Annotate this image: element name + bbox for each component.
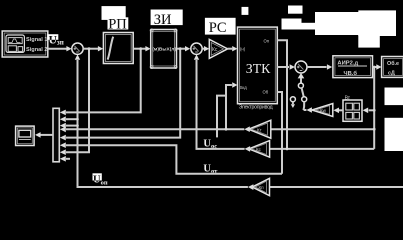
wire gain Ta to switch bbox=[304, 109, 307, 111]
wire T1 to mux input4 and VTK input2 branch bbox=[226, 85, 244, 129]
svg-text:(м)ВыХ(л): (м)ВыХ(л) bbox=[152, 47, 176, 53]
wire RP to ZI bbox=[133, 48, 146, 50]
wire gain PC to VTK bbox=[228, 48, 233, 50]
feedback line y173.8 Uot bbox=[66, 145, 282, 174]
signal builder block bbox=[2, 31, 48, 57]
svg-text:Кс: Кс bbox=[212, 47, 218, 53]
arrow into sum2 bbox=[185, 46, 190, 51]
bottom feedback line y187 Uop with gain T3 bbox=[270, 186, 403, 188]
svg-text:Кс: Кс bbox=[256, 147, 262, 152]
branch Uzp to mux in7 bbox=[66, 49, 89, 153]
block ZI (rate limiter subsystem) bbox=[150, 29, 177, 69]
svg-text:Об.е: Об.е bbox=[387, 60, 399, 67]
svg-text:ЗИ: ЗИ bbox=[154, 12, 172, 28]
arrow into gain Ta input bbox=[333, 108, 339, 114]
wire sum1 to RP bbox=[83, 48, 98, 50]
block VTK (electric drive) bbox=[238, 27, 278, 104]
summing junction sum2 bbox=[191, 43, 202, 54]
arrow out of gain Ta bbox=[306, 107, 312, 113]
label RP white boxes bbox=[102, 6, 126, 20]
wire builder to sum1 bbox=[48, 48, 67, 50]
white patch bridge bbox=[301, 23, 317, 30]
arrow into sum2 from below bbox=[194, 54, 199, 59]
arrow out of T1 bbox=[244, 126, 250, 132]
feedback vertical x287 from VTK top output bbox=[277, 40, 287, 149]
svg-text:ЧВ.б: ЧВ.б bbox=[344, 70, 358, 77]
svg-text:Вт: Вт bbox=[345, 95, 351, 101]
feedback line y148.9 Uos with gain T2 bbox=[270, 148, 375, 150]
stub mux in2 from Uop vertical bbox=[66, 118, 78, 120]
white patch top-right big bbox=[315, 12, 359, 35]
wire ZI to sum2 bbox=[177, 48, 186, 50]
tap vertical x217 to Uos line bbox=[217, 96, 226, 138]
arrow into VTK input1 bbox=[232, 46, 237, 51]
block AM2D transfer function bbox=[333, 56, 373, 78]
arrow into VTK input2 bbox=[232, 82, 237, 87]
mux block bbox=[53, 108, 59, 162]
summing junction sum1 bbox=[72, 43, 83, 54]
vertical x374.2 from AM2D output down bbox=[373, 67, 375, 149]
label ZI white box bbox=[151, 10, 183, 26]
arrow into sum1 bbox=[66, 46, 71, 51]
white patch below far bbox=[358, 35, 380, 48]
svg-text:Кw: Кw bbox=[320, 108, 327, 113]
label PC white box bbox=[205, 18, 236, 35]
svg-text:Signal 2: Signal 2 bbox=[26, 47, 47, 53]
svg-text:РП: РП bbox=[108, 17, 127, 33]
wire AM2D to right block bbox=[373, 66, 377, 68]
arrow into sum3 bbox=[290, 64, 295, 69]
summing junction sum3 bbox=[295, 61, 307, 73]
arrow into sum1 from below bbox=[75, 54, 80, 59]
display block Vt bbox=[343, 95, 362, 121]
wire VTK mid output to sum3 bbox=[277, 66, 289, 68]
arrow into gain PC bbox=[204, 46, 209, 51]
svg-text:сД: сД bbox=[388, 71, 395, 77]
scope block bbox=[16, 126, 34, 145]
wire T1 line continues to mux in4 bbox=[66, 128, 226, 130]
white patch right edge B bbox=[385, 118, 403, 151]
wire mux to scope bbox=[40, 134, 53, 136]
gain PC triangle bbox=[209, 39, 227, 58]
feedback line y129.2 with gain T1 bbox=[271, 128, 374, 130]
gain Ta triangle (after switch) bbox=[312, 104, 333, 117]
feedback vertical x282 from VTK bottom output bbox=[277, 92, 282, 174]
branch ZI output to mux in5 bbox=[66, 49, 180, 138]
white patch top-right 1 bbox=[288, 6, 303, 14]
svg-text:Sкд: Sкд bbox=[240, 85, 248, 90]
arrow into scope bbox=[35, 132, 41, 138]
wire junction from vertical to display bbox=[369, 109, 375, 111]
svg-text:Кп: Кп bbox=[259, 185, 265, 190]
svg-text:РС: РС bbox=[209, 20, 227, 36]
label Uop white box bbox=[93, 173, 102, 180]
svg-text:Электропривод: Электропривод bbox=[239, 105, 273, 111]
white patch top-right far bbox=[358, 10, 396, 36]
white patch near PC label bbox=[242, 7, 249, 15]
svg-text:Об: Об bbox=[263, 90, 269, 95]
gain T1 triangle bbox=[249, 120, 271, 138]
gain T3 triangle bbox=[252, 178, 269, 195]
wire T3 to sum1 bottom bbox=[78, 60, 248, 187]
white patch right edge A bbox=[385, 88, 403, 106]
block right edge transfer function bbox=[382, 57, 403, 78]
wire sum2 to gain PC bbox=[202, 48, 204, 50]
svg-text:Оп: Оп bbox=[264, 39, 270, 44]
wire sum3 to AM2D bbox=[307, 66, 327, 68]
arrow into RP bbox=[98, 46, 103, 51]
label Uzp white box bbox=[47, 34, 58, 40]
svg-text:(н): (н) bbox=[240, 47, 246, 52]
svg-text:Signal 1: Signal 1 bbox=[26, 37, 47, 43]
stub mux in3 bbox=[66, 125, 78, 127]
arrow into display right side bbox=[363, 108, 369, 114]
manual switch assembly bbox=[290, 73, 306, 110]
white patch top-right 2 bbox=[282, 19, 302, 30]
arrow into AM2D bbox=[327, 64, 332, 69]
arrow out of T3 bbox=[248, 184, 254, 190]
wire T2 to sum2 bottom bbox=[197, 60, 245, 149]
arrow into right block bbox=[376, 64, 381, 69]
svg-text:ЗТК: ЗТК bbox=[246, 61, 271, 76]
block RP (regulator with curve) bbox=[103, 33, 133, 64]
mux input arrows bbox=[60, 110, 66, 162]
wire display left to gain Ta arrow bbox=[339, 109, 343, 111]
arrow out of T2 bbox=[245, 146, 251, 152]
stub mux in8 bbox=[66, 158, 70, 160]
gain T2 triangle bbox=[249, 141, 270, 158]
arrow into ZI bbox=[145, 46, 150, 51]
branch RP output to mux in1 bbox=[66, 49, 141, 113]
